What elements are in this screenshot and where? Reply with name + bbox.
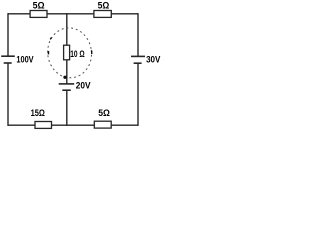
svg-text:100V: 100V xyxy=(16,55,34,65)
svg-text:5Ω: 5Ω xyxy=(33,1,45,11)
wire right branch upper xyxy=(137,13,139,56)
dashed ellipse thick dot right xyxy=(91,51,92,54)
svg-text:30V: 30V xyxy=(146,55,161,65)
wire bottom rail xyxy=(8,124,138,126)
dashed highlight ellipse around R3 xyxy=(45,25,95,80)
wire left branch lower xyxy=(7,63,9,126)
battery V2 20V middle: short plate (-) xyxy=(62,89,71,91)
svg-text:20V: 20V xyxy=(76,81,92,91)
battery V1 100V left: long plate (+) xyxy=(1,55,15,57)
resistor R4 15ohm bottom-left: body xyxy=(35,122,52,129)
dashed ellipse thick dash upper-left xyxy=(50,37,52,40)
battery V3 30V right: short plate (-) xyxy=(134,62,142,64)
battery V2 20V middle: long plate (+) xyxy=(59,83,74,85)
dashed ellipse thick dot bottom (junction-looking dot on wire) xyxy=(63,76,66,79)
wire middle branch mid xyxy=(66,59,68,84)
dashed ellipse thick dot left xyxy=(48,51,50,54)
svg-text:5Ω: 5Ω xyxy=(98,1,110,11)
resistor R2 5ohm top-right: body xyxy=(94,11,111,18)
svg-text:15Ω: 15Ω xyxy=(31,108,45,118)
resistor R3 10ohm middle: body xyxy=(64,45,70,60)
wire right branch lower xyxy=(137,63,139,126)
battery V3 30V right: long plate (+) xyxy=(131,55,145,57)
wire middle branch lower xyxy=(66,90,68,126)
wire middle branch upper xyxy=(66,13,68,46)
resistor R1 5ohm top-left: body xyxy=(30,11,47,18)
battery V1 100V left: short plate (-) xyxy=(4,62,12,64)
wire left branch upper xyxy=(7,13,9,56)
wire top rail xyxy=(8,13,138,15)
resistor R5 5ohm bottom-right: body xyxy=(94,121,111,128)
svg-text:10 Ω: 10 Ω xyxy=(70,49,85,59)
svg-text:5Ω: 5Ω xyxy=(98,108,110,118)
